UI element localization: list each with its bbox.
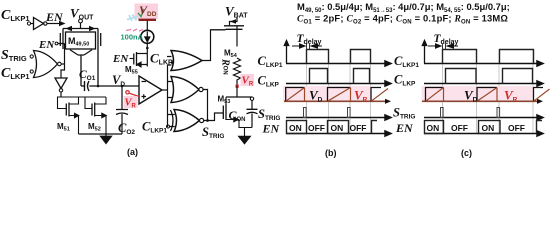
transistor M51 channel [68,103,70,117]
node VR2 highlight [241,74,255,86]
grid drop lines c [443,50,534,135]
gate G4-xnor body [174,110,200,132]
grid drop lines b [307,50,371,135]
wire CO2 up [121,86,123,109]
transistor M54 gate bar [226,28,243,30]
gate G3-nor body [171,77,199,103]
svg-text:OFF: OFF [508,123,525,133]
svg-text:ON: ON [482,123,495,133]
arrow right on rail [89,26,96,31]
gate G3 input stubs [168,82,173,98]
svg-text:ON: ON [289,123,302,133]
ramp b axis arrow [385,99,391,104]
axis b4 baseline [286,115,391,120]
gate G1 output bubble [58,62,62,66]
terminal CLKP [172,61,175,64]
row3c highlight band [422,86,534,102]
svg-text:(c): (c) [461,148,472,158]
gate G1 NOR body [34,51,58,78]
axis c1 baseline [424,61,543,66]
axis b1 baseline [286,61,391,66]
wire G2-or out [202,30,226,61]
wire STRIG out [204,113,224,121]
waveform c CLKP1 pulse1 [443,50,477,64]
node VR comp terminal [126,91,129,94]
M55 drain stub [137,53,148,55]
terminal CLKP1 [27,22,30,25]
transistor M54 channel bar [224,25,244,27]
terminal EN gate [55,42,58,45]
label M54 [223,47,243,59]
spike c1 [441,108,444,118]
waveform b CLKP pulse1 [310,69,328,84]
transistor M51 gate bar [65,104,67,116]
waveform b CLKP pulse2 [354,69,370,84]
wire bottom rail [79,133,123,135]
wire G3 out [203,90,207,121]
gate G3 output bubble [199,87,203,91]
wire CO2 down [121,114,123,134]
wire M54 drain down [236,26,238,58]
svg-text:OFF: OFF [451,123,468,133]
wire EN out [47,23,60,25]
wire CLKP to G1 [172,57,175,63]
transistor M52 gate bar [91,104,93,116]
inverter U2 down [55,78,67,89]
M52 source down [105,116,107,135]
gate G4 extra arc [171,110,174,131]
wire M54 gate left [211,29,226,31]
svg-text:EN: EN [112,53,129,65]
enbox b partial [372,121,378,134]
Tdelay b arrows [292,44,305,48]
transistor M55 channel [136,52,138,66]
gate G2-or body [171,51,202,71]
wire B right [89,85,139,87]
enbox c ON2 [479,121,501,134]
terminal VOUT [79,19,83,23]
M52 drain stub [95,97,106,104]
wire I1 down [146,43,148,66]
capacitor CO1 [85,81,90,91]
svg-text:(b): (b) [325,148,337,158]
transistor M49 left channel [62,29,64,50]
wire M pair bottom funnel [70,50,92,55]
wire VDD down [146,21,148,30]
wire VR node down [236,86,238,97]
transistor M52 gate wire [85,97,92,109]
terminal CLKP1 G4 [167,125,170,128]
wire VR comp [129,93,139,96]
spike b2 [348,108,351,118]
wire CLKP1 to inverter [31,23,34,25]
terminal CON [250,97,253,100]
enbox b ON2 [328,121,349,134]
svg-text:OFF: OFF [308,123,325,133]
ramp b box3 partial [371,88,381,102]
svg-text:EN: EN [38,39,55,51]
trunk wire gates [167,65,169,127]
waveform c CLKP1 pulse2 [500,50,534,64]
ramp c box1 [426,88,444,102]
ground G2 [239,136,251,144]
svg-text:EN: EN [262,122,281,136]
ramp c axis arrow [537,99,543,104]
wire VR rail [226,96,252,98]
capacitor CON [247,109,258,114]
waveform c CLKP pulse1 [446,69,477,84]
wire trunk stub g1 [167,57,172,66]
wire CON down [251,100,253,109]
enbox c partial [537,121,543,134]
inverter U1 [34,18,44,30]
annotation cyan mark [127,15,138,22]
svg-text:ON: ON [331,123,344,133]
M55 source stub with arrow [137,62,148,67]
node VR2 dot [236,85,239,88]
M53 drain stub [225,97,227,106]
ramp c box3 partial [534,88,544,102]
spike c2 [497,108,500,118]
wire comparator out [162,89,168,91]
wire B left [81,85,85,87]
node EN arrow [59,21,66,26]
wire VBAT down [230,17,238,26]
Tdelay c ticks [443,44,446,50]
axis c2 baseline [424,81,543,86]
box M49,50 [66,32,96,49]
resistor RON [234,58,241,86]
axis b2 baseline [286,81,391,86]
junction STRIG [206,119,209,122]
transistor M52 channel [94,103,96,117]
comparator plus [142,94,147,99]
wire VOUT down [80,23,82,29]
axis c1 vertical [422,41,426,64]
axis b1 vertical [284,41,288,64]
ground G [101,134,112,144]
transistor M49 gate bar [59,33,61,46]
annotation pink squiggle [126,29,143,31]
current source I1 [141,30,154,43]
supply VDD bar [139,19,157,21]
current source arrow [145,32,150,42]
transistor M50 right channel [97,29,99,50]
svg-text:OFF: OFF [350,123,367,133]
wire gates top rail [58,96,107,98]
M51 source stub arrow [69,113,79,117]
ramp b box2 [328,88,351,102]
transistor M53 channel [225,105,227,121]
ramp b box1 [286,88,305,102]
axis b5 baseline [286,131,391,136]
gate G1 input bubble bottom [30,70,33,73]
svg-text:EN: EN [395,121,414,135]
Tdelay b ticks [307,44,310,50]
row3b highlight band [283,86,371,102]
supply VDD highlight [135,4,159,20]
wire EN to gate [58,43,60,45]
wire CON bottom [251,114,253,128]
svg-text:ON: ON [427,123,440,133]
M51 drain stub [69,97,79,104]
axis c5 baseline [424,131,543,136]
wire top rail M49,50 [63,28,98,30]
gate G4 output bubble [200,118,204,122]
M53 source stub arrow [226,117,239,121]
axis c4 baseline [424,115,543,120]
transistor M53 gate bar [222,106,224,120]
gate G4 input stubs [168,115,175,127]
wire EN to M55 gate [130,58,134,60]
node VR comp highlight [124,96,138,108]
transistor M50 gate bar [100,33,102,46]
enbox b ON1 [287,121,307,134]
M52 source stub arrow [95,113,107,117]
Tdelay c arrows [428,44,441,48]
M54 source arrow [230,19,236,23]
gate G1 input bubble top [30,55,33,58]
wire M50 down to VD [97,49,99,86]
wire G1 out [58,44,65,79]
enbox c ON1 [425,121,444,134]
arrow left on rail [66,26,73,31]
waveform b CLKP1 pulse2 [351,50,371,64]
comparator minus [142,81,147,83]
svg-text:100nA: 100nA [121,33,144,42]
ramp c box2 [477,88,497,102]
svg-text:(a): (a) [127,147,138,157]
ramp c baseline [422,100,538,102]
junction M50-VD [97,85,100,88]
annotation green mark [138,9,144,17]
spike b1 [304,108,307,118]
waveform c CLKP pulse2 [503,69,533,84]
comparator U3 [139,76,162,104]
wire CLKP junction [146,47,149,50]
wire M pair output down [80,55,82,86]
wire M53 source down [239,120,252,137]
junction VD [121,85,124,88]
M51 source down [78,116,80,135]
svg-text:EN: EN [45,10,64,24]
waveform b CLKP1 pulse1 [307,50,329,64]
transistor M51 gate wire [58,97,67,109]
ramp b baseline [284,100,386,102]
wire U2 out down [60,92,62,97]
transistor M55 gate bar [133,54,135,65]
capacitor CO2 [116,110,128,115]
